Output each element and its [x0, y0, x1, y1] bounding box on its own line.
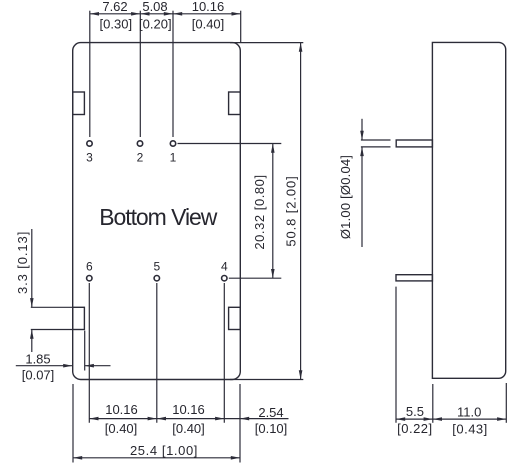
svg-text:3.3 [0.13]: 3.3 [0.13] — [15, 231, 30, 294]
svg-text:Bottom View: Bottom View — [99, 204, 218, 230]
svg-text:50.8 [2.00]: 50.8 [2.00] — [283, 175, 298, 246]
svg-text:20.32 [0.80]: 20.32 [0.80] — [252, 174, 267, 249]
svg-text:5.08: 5.08 — [142, 0, 167, 14]
svg-text:[0.40]: [0.40] — [105, 421, 138, 436]
svg-text:[0.10]: [0.10] — [255, 421, 288, 436]
svg-text:10.16: 10.16 — [105, 402, 138, 417]
svg-text:10.16: 10.16 — [192, 0, 225, 14]
svg-text:25.4 [1.00]: 25.4 [1.00] — [130, 443, 198, 458]
svg-text:7.62: 7.62 — [102, 0, 127, 14]
svg-text:Ø1.00 [Ø0.04]: Ø1.00 [Ø0.04] — [338, 155, 353, 239]
svg-text:5.5: 5.5 — [406, 404, 424, 419]
svg-text:3: 3 — [86, 151, 93, 165]
svg-text:[0.20]: [0.20] — [139, 17, 172, 32]
svg-text:6: 6 — [86, 260, 93, 274]
svg-text:[0.40]: [0.40] — [172, 421, 205, 436]
svg-text:11.0: 11.0 — [457, 404, 481, 419]
svg-text:10.16: 10.16 — [172, 402, 205, 417]
svg-text:4: 4 — [221, 260, 228, 274]
svg-text:[0.07]: [0.07] — [22, 368, 55, 383]
svg-text:1: 1 — [170, 151, 177, 165]
svg-text:[0.43]: [0.43] — [452, 422, 488, 437]
svg-text:[0.22]: [0.22] — [397, 421, 433, 436]
svg-text:2.54: 2.54 — [258, 405, 283, 420]
svg-text:[0.40]: [0.40] — [192, 17, 225, 32]
svg-text:[0.30]: [0.30] — [100, 17, 133, 32]
svg-text:2: 2 — [137, 151, 144, 165]
svg-text:1.85: 1.85 — [25, 351, 50, 366]
svg-text:5: 5 — [153, 260, 160, 274]
